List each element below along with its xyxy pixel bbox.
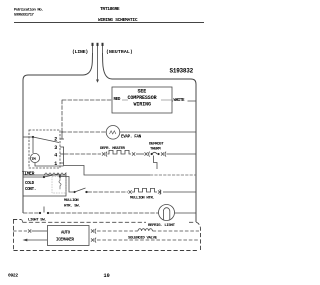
thermostat drop wire: [154, 156, 158, 170]
ground arrow: [96, 80, 99, 83]
svg-text:4: 4: [54, 153, 57, 159]
header title WIRING SCHEMATIC: [98, 17, 138, 23]
wire line-side: plug to left bus: [23, 53, 93, 80]
svg-text:TRT18GRE: TRT18GRE: [100, 6, 120, 12]
connector: [132, 152, 135, 155]
refrigerator light switch: [39, 212, 41, 214]
solenoid valve coil: [138, 229, 152, 231]
svg-text:MULLION: MULLION: [64, 199, 79, 203]
wire mullion heater to bus: [163, 191, 196, 193]
defrost heater element: [108, 150, 132, 154]
connector: [158, 189, 161, 194]
junction fan tap: [61, 131, 63, 133]
icemaker dashed riser right: [196, 222, 201, 251]
wire solenoid to bus: [153, 230, 200, 232]
timer terminal 4: [60, 153, 64, 155]
wire bus to cold control: [23, 176, 44, 178]
svg-text:Publication No.: Publication No.: [14, 8, 43, 13]
wire compressor to right bus (WHITE): [172, 100, 196, 102]
svg-text:(LINE): (LINE): [72, 49, 88, 55]
svg-text:EVAP. FAN: EVAP. FAN: [121, 136, 142, 140]
svg-text:RED: RED: [114, 98, 121, 102]
wire: [136, 153, 144, 155]
water fill arrow: [23, 239, 28, 242]
svg-text:10: 10: [104, 273, 110, 279]
evap fan motor: [106, 126, 120, 140]
svg-text:REFRIG. LIGHT: REFRIG. LIGHT: [148, 224, 176, 228]
auto icemaker box: [48, 226, 90, 246]
refrigerator light lamp: [159, 205, 175, 221]
wire neutral return from terminal 1: [64, 147, 151, 175]
defrost timer box: [29, 130, 60, 168]
timer terminal 1: [60, 162, 64, 164]
wire to mullion heater: [88, 191, 129, 193]
svg-text:ICEMAKER: ICEMAKER: [56, 239, 74, 243]
wire cold control to mullion switch: [60, 177, 73, 193]
svg-text:AUTO: AUTO: [61, 232, 71, 236]
svg-text:3: 3: [54, 145, 57, 151]
connector: [145, 152, 150, 157]
wire evap fan dashed: [62, 131, 106, 133]
svg-text:TM: TM: [31, 158, 36, 162]
wire light switch to lamp: [50, 212, 159, 214]
svg-text:WIRING: WIRING: [134, 102, 152, 108]
wire icemaker tap dashed: [21, 220, 195, 223]
wire inside compressor box: [122, 99, 128, 101]
svg-text:2: 2: [54, 137, 57, 143]
wire neutral-side: plug to right bus: [103, 53, 197, 84]
timer switch arm: [32, 136, 34, 138]
timer terminal 3: [60, 146, 64, 148]
timer motor TM: [32, 137, 34, 153]
connector: [91, 238, 96, 243]
right bus wire: [195, 84, 197, 222]
svg-text:WHITE: WHITE: [174, 99, 185, 103]
icemaker dashed enclosure left: [13, 220, 199, 251]
connector: [28, 229, 31, 232]
header model number: [100, 6, 120, 12]
connector: [129, 190, 132, 193]
connector: [161, 152, 166, 157]
header rule: [14, 22, 204, 24]
wire defrost heater feed dashed: [64, 153, 101, 155]
label COLD CONT.: [25, 182, 36, 192]
svg-text:DEFR. HEATER: DEFR. HEATER: [100, 147, 126, 151]
wire RED dashed to compressor: [62, 99, 112, 101]
connector: [91, 229, 96, 234]
wire timer t2 riser (red feed): [61, 100, 63, 131]
power plug prongs: [92, 43, 104, 53]
label MULLION HTR. SW.: [64, 199, 80, 209]
svg-text:DEFROST: DEFROST: [149, 143, 164, 147]
cold control box: [23, 175, 66, 196]
svg-text:5995331717: 5995331717: [14, 14, 35, 18]
mullion heater element: [132, 188, 157, 192]
wire lamp to bus: [175, 212, 197, 214]
label DEFROST THERM: [149, 143, 164, 152]
cold control bellows sawtooth: [44, 173, 66, 175]
icemaker return row: [97, 239, 199, 241]
svg-text:THERM: THERM: [150, 148, 161, 152]
wire light switch feed: [23, 212, 39, 214]
timer terminal 2: [60, 138, 64, 140]
wire bus to timer switch: [23, 136, 33, 138]
cold control switch: [43, 176, 45, 178]
compressor box (SEE COMPRESSOR WIRING): [112, 87, 172, 113]
svg-text:COMPRESSOR: COMPRESSOR: [128, 95, 157, 101]
connector: [102, 152, 107, 157]
svg-text:HTR. SW.: HTR. SW.: [64, 205, 80, 209]
svg-text:0922: 0922: [8, 273, 18, 279]
wire therm to right bus: [167, 153, 197, 155]
icemaker feed row: [13, 230, 27, 232]
svg-text:(NEUTRAL): (NEUTRAL): [106, 49, 133, 55]
mullion heater switch: [73, 191, 75, 193]
svg-text:CONT.: CONT.: [25, 188, 36, 192]
svg-text:TIMER: TIMER: [22, 172, 35, 177]
defrost thermostat: [151, 153, 153, 155]
svg-text:SEE: SEE: [138, 89, 147, 95]
header publication number: [14, 8, 43, 18]
svg-text:COLD: COLD: [25, 182, 35, 186]
svg-text:LIGHT SW.: LIGHT SW.: [28, 219, 46, 223]
wire TM to terminal 1: [35, 163, 64, 166]
svg-text:MULLION HTR.: MULLION HTR.: [130, 197, 155, 201]
left bus wire: [22, 80, 24, 213]
cold control spring: [59, 178, 61, 190]
cold control inner outline: [52, 177, 66, 194]
ground wire from center prong: [97, 53, 99, 80]
wire icemaker to solenoid: [97, 230, 138, 232]
svg-text:S193832: S193832: [170, 68, 194, 75]
wire fan to right bus: [120, 131, 196, 133]
